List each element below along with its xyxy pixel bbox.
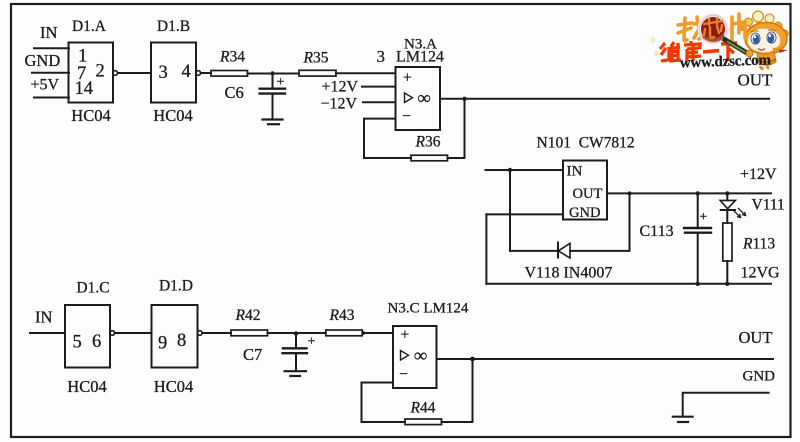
node junction output/feedback (bottom) xyxy=(470,357,475,362)
inverter D1.D xyxy=(152,277,203,396)
node 12VG xyxy=(741,264,781,281)
logo: red characters Wei Ku Yi Xia xyxy=(660,41,737,62)
node OUT (top) xyxy=(738,71,774,90)
svg-text:+12V: +12V xyxy=(740,166,777,183)
ground (C6) xyxy=(263,120,283,125)
svg-text:+: + xyxy=(401,327,410,344)
svg-text:V118 IN4007: V118 IN4007 xyxy=(525,264,613,281)
svg-text:N101 CW7812: N101 CW7812 xyxy=(537,134,635,151)
svg-text:OUT: OUT xyxy=(738,71,774,90)
node +5V xyxy=(31,76,60,93)
svg-text:HC04: HC04 xyxy=(71,106,110,125)
ground (bottom right) xyxy=(673,417,693,422)
resistor R44 xyxy=(405,399,442,424)
svg-text:GND: GND xyxy=(569,205,600,221)
svg-text:−: − xyxy=(402,108,411,125)
logo: character Pian (chip) xyxy=(732,14,745,40)
svg-text:+: + xyxy=(700,209,708,224)
Wei xyxy=(660,42,681,61)
face xyxy=(748,28,781,52)
svg-text:D1.A: D1.A xyxy=(72,18,107,35)
svg-text:5: 5 xyxy=(73,333,82,353)
svg-text:R44: R44 xyxy=(410,399,436,416)
svg-text:IN: IN xyxy=(567,164,583,180)
node junction C7 xyxy=(294,331,298,335)
svg-text:8: 8 xyxy=(177,331,186,351)
op-amp N3.A LM124 xyxy=(396,37,445,131)
node GND (bottom) xyxy=(743,369,776,385)
wire -12V to op-amp xyxy=(363,101,396,103)
node GND (top label) xyxy=(25,51,61,70)
svg-text:R43: R43 xyxy=(329,307,355,324)
wire D1.D to R42 xyxy=(202,332,231,334)
legs xyxy=(761,66,764,69)
regulator N101 CW7812 xyxy=(537,134,635,221)
head (helmet) xyxy=(745,23,787,55)
svg-text:D1.D: D1.D xyxy=(159,277,193,294)
svg-text:C6: C6 xyxy=(225,83,244,102)
svg-text:www.dzsc.com: www.dzsc.com xyxy=(680,52,772,71)
svg-text:12VG: 12VG xyxy=(741,264,781,281)
svg-text:D1.B: D1.B xyxy=(157,18,190,35)
wire R42 to R43 xyxy=(268,332,326,334)
wire left down to bottom rail xyxy=(485,214,487,283)
eyes xyxy=(751,33,760,44)
svg-text:OUT: OUT xyxy=(739,328,773,347)
svg-text:HC04: HC04 xyxy=(154,377,193,396)
right arm with red pen xyxy=(773,49,783,50)
svg-text:+: + xyxy=(277,75,285,90)
pin 3 label xyxy=(377,47,386,66)
svg-text:R34: R34 xyxy=(219,49,245,66)
label V118 IN4007 xyxy=(525,264,613,281)
capacitor C113 xyxy=(640,191,712,286)
resistor R35 xyxy=(299,50,336,77)
svg-text:IN: IN xyxy=(35,307,52,326)
capacitor C7 xyxy=(243,334,316,372)
inverter D1.B xyxy=(151,18,201,125)
logo: character Zhao (find) xyxy=(678,17,701,41)
svg-text:∞: ∞ xyxy=(418,89,431,109)
wire R43 to op-amp N3.C xyxy=(362,332,393,334)
wire IN to D1.A pin1 xyxy=(34,47,69,49)
node -12V xyxy=(321,96,358,113)
node IN (bottom input label) xyxy=(35,307,52,326)
wire diode to OUT line xyxy=(570,193,630,251)
crown antennae xyxy=(748,15,778,29)
wire input to regulator IN xyxy=(486,169,564,171)
node junction output/feedback xyxy=(462,97,466,101)
body xyxy=(757,51,776,65)
svg-text:V111: V111 xyxy=(752,196,785,213)
node OUT (bottom) xyxy=(739,328,773,347)
wire bottom rail xyxy=(486,283,771,285)
wire op-amp output to OUT (bottom) xyxy=(437,358,774,360)
svg-text:+5V: +5V xyxy=(31,76,60,93)
svg-text:−: − xyxy=(399,366,408,383)
logo: magnifier over Xin xyxy=(699,15,727,43)
wire D1.C to D1.D xyxy=(115,332,152,334)
svg-text:C113: C113 xyxy=(640,223,674,240)
svg-text:GND: GND xyxy=(25,51,61,70)
diode V118 xyxy=(558,243,570,259)
wire R36 up to output xyxy=(448,99,465,158)
svg-text:3: 3 xyxy=(159,63,168,83)
node +12V (right) xyxy=(740,166,777,183)
svg-text:6: 6 xyxy=(92,332,101,352)
svg-text:R113: R113 xyxy=(742,236,775,253)
svg-text:C7: C7 xyxy=(243,345,262,364)
svg-text:−12V: −12V xyxy=(321,96,358,113)
wire regulator OUT to +12V xyxy=(607,192,771,194)
resistor R43 xyxy=(326,307,363,336)
wire D1.B out to R34 xyxy=(201,72,211,74)
svg-text:GND: GND xyxy=(743,369,776,385)
wire +12V to op-amp xyxy=(362,86,396,88)
resistor R42 xyxy=(231,307,268,336)
svg-text:+: + xyxy=(308,335,316,350)
inverter D1.A xyxy=(69,18,118,125)
logo: magnifier handle xyxy=(723,39,753,57)
wire junction down to diode xyxy=(509,170,511,251)
brows and smile xyxy=(751,30,776,32)
svg-text:D1.C: D1.C xyxy=(76,279,109,296)
svg-text:N3.C LM124: N3.C LM124 xyxy=(388,300,469,316)
op-amp N3.C LM124 xyxy=(388,300,469,388)
wire op-amp output to OUT xyxy=(440,98,769,100)
ground (C7) xyxy=(285,371,306,376)
svg-text:+12V: +12V xyxy=(322,79,359,96)
node junction diode branch xyxy=(508,168,512,172)
node +12V xyxy=(322,79,359,96)
inverter D1.C xyxy=(65,279,115,396)
svg-text:14: 14 xyxy=(75,79,94,99)
svg-text:R36: R36 xyxy=(415,134,441,151)
resistor R36 xyxy=(411,134,448,161)
wire GND to D1.A pin7 xyxy=(32,72,69,74)
Ku xyxy=(684,41,701,62)
svg-text:LM124: LM124 xyxy=(396,49,444,66)
wire regulator GND to left xyxy=(486,213,563,215)
belt xyxy=(758,59,776,62)
wire feedback from minus input xyxy=(364,119,411,158)
wire GND rail xyxy=(683,393,769,417)
wire R34 to R35 xyxy=(248,73,300,75)
svg-text:HC04: HC04 xyxy=(153,106,192,125)
svg-text:3: 3 xyxy=(377,47,386,66)
LED V111 xyxy=(720,191,785,223)
wire to diode cathode xyxy=(510,250,558,252)
wire +5V to D1.A pin14 xyxy=(34,97,69,99)
wire R44 up to output xyxy=(442,359,473,422)
svg-text:HC04: HC04 xyxy=(67,377,106,396)
svg-text:2: 2 xyxy=(96,62,105,82)
resistor R113 (vertical) xyxy=(723,223,776,286)
wire IN to D1.C xyxy=(30,332,65,334)
svg-text:R42: R42 xyxy=(235,307,261,324)
resistor R34 xyxy=(211,49,248,77)
svg-text:4: 4 xyxy=(182,62,191,82)
Yi xyxy=(703,51,719,53)
wire D1.A out to D1.B in xyxy=(118,72,152,74)
node IN (top input label) xyxy=(40,23,57,42)
svg-text:OUT: OUT xyxy=(573,186,603,202)
wire feedback from minus input (N3.C) xyxy=(362,383,406,423)
logo: sparkles xyxy=(650,36,659,57)
logo: mascot xyxy=(740,11,789,69)
Xia xyxy=(721,43,737,61)
svg-text:∞: ∞ xyxy=(414,347,427,367)
svg-text:IN: IN xyxy=(40,23,57,42)
capacitor C6 xyxy=(225,74,286,120)
logo: www.dzsc.com xyxy=(680,52,772,71)
node junction diode top xyxy=(628,191,632,195)
wire R35 to op-amp pin 3 xyxy=(336,72,396,74)
svg-text:9: 9 xyxy=(158,334,167,354)
svg-text:R35: R35 xyxy=(303,50,329,67)
svg-text:+: + xyxy=(403,70,412,87)
node junction C6 xyxy=(270,71,274,75)
